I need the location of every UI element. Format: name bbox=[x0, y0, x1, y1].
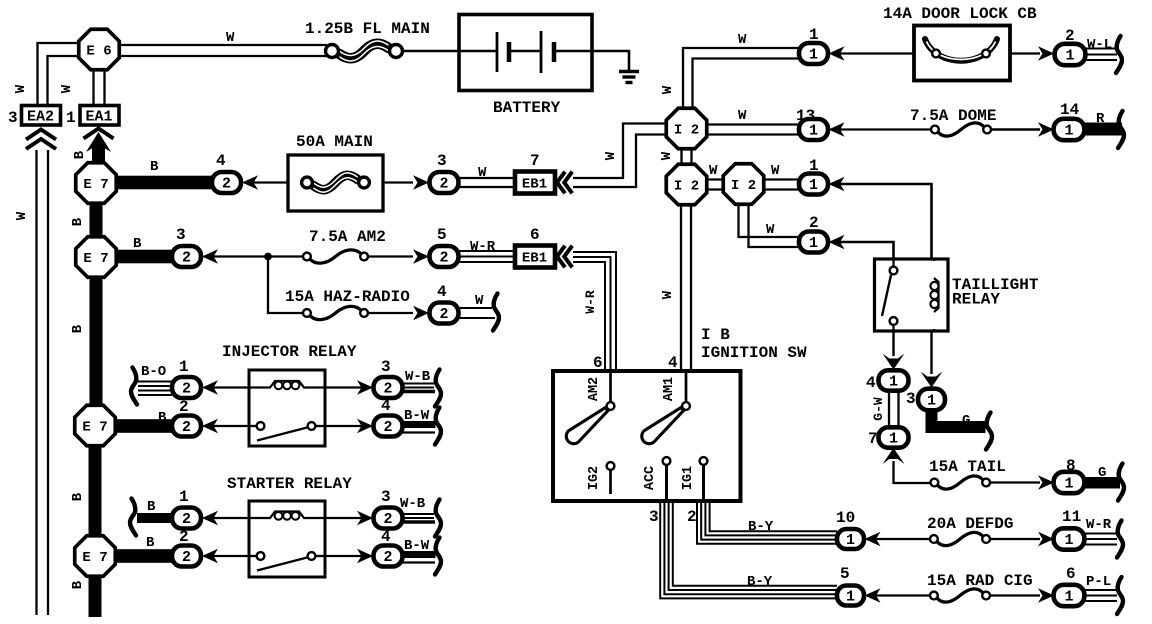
wire continuation curl bbox=[435, 538, 441, 575]
arrow into connector 2 bbox=[1038, 46, 1054, 60]
connector 1 (pin 2) taillight sw feed bbox=[799, 232, 828, 253]
fuse 15A TAIL bbox=[931, 476, 990, 489]
wire label W bbox=[771, 163, 780, 179]
svg-text:1: 1 bbox=[66, 109, 76, 127]
wire label B bbox=[147, 499, 156, 515]
connector pin 3 label bbox=[437, 152, 447, 170]
connector EA1 bbox=[80, 106, 119, 126]
connector pin 1 label bbox=[179, 488, 189, 506]
solid arrow down into connector 3 bbox=[921, 372, 943, 388]
wire continuation curl B bbox=[130, 499, 136, 536]
svg-text:7: 7 bbox=[530, 152, 540, 170]
wire label G-W rotated bbox=[871, 397, 886, 421]
svg-text:1: 1 bbox=[1064, 123, 1073, 140]
svg-text:P-L: P-L bbox=[1086, 574, 1111, 590]
connector 1 (pin 10) bbox=[837, 529, 864, 549]
wire label P-L bbox=[1086, 574, 1111, 590]
svg-text:IGNITION SW: IGNITION SW bbox=[701, 344, 807, 362]
wire W stub (double line) bbox=[459, 308, 496, 318]
wire W-B stub bbox=[403, 514, 436, 522]
svg-text:E 7: E 7 bbox=[82, 419, 107, 435]
svg-text:2: 2 bbox=[182, 419, 191, 436]
arrow into connector 2 bbox=[202, 549, 218, 563]
wire to taillight relay switch bbox=[837, 242, 894, 258]
svg-text:B-W: B-W bbox=[404, 538, 430, 554]
wire continuation curl bbox=[1118, 111, 1124, 148]
wire from 50A MAIN fuse bbox=[383, 181, 413, 183]
svg-text:3: 3 bbox=[176, 226, 186, 244]
connector 2 (pin 1) bbox=[172, 377, 201, 398]
connector EA2 pin 3 label bbox=[8, 109, 18, 127]
arrow into connector 4 bbox=[413, 306, 429, 320]
svg-text:3: 3 bbox=[437, 152, 447, 170]
wire label B-W bbox=[404, 538, 430, 554]
svg-text:ACC: ACC bbox=[643, 466, 658, 490]
wire B-W stub bbox=[403, 421, 436, 433]
svg-text:EA2: EA2 bbox=[27, 109, 54, 126]
svg-text:2: 2 bbox=[222, 176, 231, 193]
wire W junction I2 to connector 13 (double line) bbox=[706, 125, 799, 135]
solid arrow into EA1 bbox=[86, 132, 111, 163]
svg-text:BATTERY: BATTERY bbox=[493, 99, 561, 117]
wire W from E6 bottom to EA1 (double line) bbox=[94, 69, 105, 104]
connector EA1 pin 1 label bbox=[66, 109, 76, 127]
svg-text:1: 1 bbox=[179, 358, 189, 376]
svg-text:7: 7 bbox=[868, 430, 878, 448]
svg-text:B: B bbox=[72, 150, 88, 159]
connector pin 3 label bbox=[381, 488, 391, 506]
svg-text:B: B bbox=[146, 535, 155, 551]
wire G-W (double line) bbox=[889, 391, 899, 429]
wire from relay switch down bbox=[892, 331, 894, 356]
wire W from E6 left to EA2 (double line corner) bbox=[38, 43, 79, 104]
connector pin 5 label bbox=[437, 226, 447, 244]
svg-text:W: W bbox=[766, 222, 775, 238]
wire label W rotated bbox=[659, 151, 675, 160]
wire from TAIL fuse bbox=[990, 481, 1040, 483]
fuse 15A RAD CIG label bbox=[927, 572, 1033, 590]
svg-text:E 7: E 7 bbox=[83, 251, 108, 267]
arrow into connector 1 bbox=[202, 380, 218, 394]
wire B-Y from ACC to connector 5 (4-line bundle) bbox=[660, 503, 837, 598]
arrow into connector 5 bbox=[413, 249, 429, 263]
solid arrow up into connector 7 bbox=[883, 448, 905, 464]
connector pin 7 label bbox=[868, 430, 878, 448]
svg-text:IG2: IG2 bbox=[587, 466, 602, 490]
relay switch contacts bbox=[882, 259, 897, 331]
wire label B-W bbox=[404, 408, 430, 424]
wire P-L stub bbox=[1086, 590, 1118, 601]
wire W from E6 to fusible link FL MAIN (double line) bbox=[120, 45, 329, 56]
svg-text:W: W bbox=[13, 84, 29, 93]
wire from CB to connector 2 bbox=[1010, 52, 1040, 54]
svg-text:2: 2 bbox=[182, 549, 191, 566]
svg-text:3: 3 bbox=[649, 508, 659, 526]
svg-text:1: 1 bbox=[179, 488, 189, 506]
connector 2 (pin 4) bbox=[212, 172, 241, 193]
arrow into connector 4 bbox=[357, 419, 373, 433]
wire to relay switch bbox=[210, 425, 249, 427]
arrow into connector 3 bbox=[357, 380, 373, 394]
connector pin 4 label bbox=[866, 374, 876, 392]
svg-text:4: 4 bbox=[381, 397, 391, 415]
connector pin 5 label bbox=[840, 565, 850, 583]
arrow into connector 1 bbox=[202, 511, 218, 525]
arrow into connector 11 bbox=[1038, 532, 1054, 546]
wire label W-L bbox=[1087, 37, 1112, 53]
wire W below EA2 to bottom (double line) bbox=[37, 150, 49, 615]
svg-text:3: 3 bbox=[906, 390, 916, 408]
svg-text:E 7: E 7 bbox=[83, 177, 108, 193]
wire to AM2 fuse with junction bbox=[210, 255, 305, 257]
fuse 15A HAZ-RADIO label bbox=[285, 288, 410, 306]
wire continuation curl bbox=[986, 413, 992, 450]
svg-text:B-O: B-O bbox=[141, 364, 166, 380]
connector pin 10 label bbox=[836, 509, 855, 527]
svg-text:2: 2 bbox=[383, 549, 392, 566]
connector 2 (pin 2) bbox=[172, 546, 201, 567]
connector pin 4 label bbox=[216, 152, 226, 170]
wire from junction to HAZ fuse bbox=[268, 257, 305, 314]
wire label W rotated bbox=[13, 84, 29, 93]
wire from FL MAIN to battery bbox=[403, 50, 460, 53]
wire W-B stub bbox=[403, 384, 436, 392]
relay STARTER box bbox=[249, 501, 325, 577]
connector 1 (pin 6) bbox=[1054, 585, 1085, 606]
connector pin 13 label bbox=[796, 107, 815, 125]
circuit breaker box bbox=[914, 26, 1010, 81]
wire from relay switch bbox=[325, 555, 371, 557]
ignition switch pin 2 label bbox=[687, 508, 697, 526]
svg-text:W-B: W-B bbox=[400, 496, 426, 512]
connector 2 (pin 4) bbox=[430, 303, 459, 324]
svg-text:15A HAZ-RADIO: 15A HAZ-RADIO bbox=[285, 288, 410, 306]
wire battery to ground bbox=[592, 51, 629, 71]
arrow into connector 10 bbox=[865, 532, 881, 546]
relay STARTER RELAY label bbox=[227, 475, 352, 493]
svg-text:1: 1 bbox=[809, 235, 818, 252]
wire from AM2 fuse bbox=[368, 255, 413, 257]
svg-text:W: W bbox=[475, 293, 484, 309]
connector 2 (pin 3) bbox=[374, 508, 403, 529]
svg-text:1: 1 bbox=[889, 431, 898, 448]
wire label W bbox=[738, 32, 747, 48]
ignition switch pin 4 label bbox=[668, 354, 678, 372]
connector 2 (pin 3) bbox=[430, 172, 459, 193]
relay coil bbox=[248, 512, 326, 520]
svg-text:W-B: W-B bbox=[405, 369, 431, 385]
wire B from E7 to connector 3 (thick) bbox=[112, 250, 174, 264]
connector pin 14 label bbox=[1060, 101, 1080, 119]
wire W connector 1 to junction I2 (double line corner) bbox=[683, 48, 799, 109]
svg-text:1: 1 bbox=[889, 374, 898, 391]
wire continuation curl bbox=[435, 408, 441, 445]
fuse 7.5A AM2 bbox=[303, 250, 368, 263]
svg-text:6: 6 bbox=[1066, 565, 1076, 583]
connector 1 (pin 4) bbox=[879, 370, 909, 390]
battery cells bbox=[459, 31, 592, 73]
svg-text:E 6: E 6 bbox=[86, 43, 111, 59]
svg-text:W-R: W-R bbox=[583, 290, 598, 314]
wire label B bbox=[158, 410, 167, 426]
wire label W bbox=[709, 163, 718, 179]
wire label B-Y bbox=[748, 519, 774, 535]
relay coil bbox=[930, 259, 938, 331]
svg-text:W: W bbox=[709, 163, 718, 179]
svg-text:W: W bbox=[226, 30, 235, 46]
svg-text:1: 1 bbox=[809, 123, 818, 140]
wire label W rotated bbox=[603, 151, 619, 160]
wire W-L stub bbox=[1086, 49, 1118, 61]
connector 1 (pin 7) bbox=[879, 427, 909, 447]
svg-text:4: 4 bbox=[866, 374, 876, 392]
wire W from EB1 up to junction I2 (double line corner) bbox=[573, 124, 667, 188]
junction E6 bbox=[79, 29, 120, 70]
junction I2 #2 bbox=[666, 164, 707, 205]
arrow into connector 13 bbox=[829, 122, 845, 136]
arrow into connector 8 bbox=[1038, 475, 1054, 489]
svg-text:IG1: IG1 bbox=[681, 466, 696, 490]
svg-text:W-R: W-R bbox=[470, 239, 496, 255]
svg-text:B: B bbox=[133, 236, 142, 252]
svg-text:B-W: B-W bbox=[404, 408, 430, 424]
wire continuation curl bbox=[1117, 521, 1123, 558]
wire from relay coil bbox=[325, 386, 371, 388]
ground bbox=[619, 72, 639, 83]
connector 2 (pin 4) bbox=[374, 546, 403, 567]
svg-text:W: W bbox=[660, 290, 676, 299]
connector 1 (pin 3) bbox=[918, 389, 945, 411]
wire label B rotated bbox=[70, 217, 86, 226]
svg-text:RELAY: RELAY bbox=[952, 291, 1000, 309]
connector pin 6 label bbox=[1066, 565, 1076, 583]
relay TAILLIGHT RELAY box bbox=[875, 259, 949, 331]
wire to door lock CB bbox=[837, 52, 914, 54]
wire W I2 to connector 1 (double line) bbox=[763, 180, 799, 190]
fuse 50A MAIN box bbox=[288, 155, 383, 211]
connector 2 (pin 5) bbox=[430, 246, 459, 267]
arrow into connector 3 bbox=[413, 175, 429, 189]
connector 1 (pin 14) bbox=[1054, 119, 1085, 140]
svg-text:5: 5 bbox=[437, 226, 447, 244]
connector pin 4 label bbox=[437, 283, 447, 301]
fuse 7.5A DOME label bbox=[910, 107, 996, 125]
connector 2 (pin 4) bbox=[374, 416, 403, 437]
wire continuation curl bbox=[493, 294, 499, 331]
connector 1 (pin 1) taillight feed bbox=[799, 174, 828, 195]
connector 1 (pin 5) bbox=[837, 586, 864, 606]
svg-text:B-Y: B-Y bbox=[747, 574, 773, 590]
svg-text:2: 2 bbox=[182, 511, 191, 528]
junction I2 #3 bbox=[723, 164, 764, 205]
svg-text:B: B bbox=[70, 580, 86, 589]
wire continuation curl bbox=[1118, 464, 1124, 501]
connector pin 3 label bbox=[381, 358, 391, 376]
svg-text:2: 2 bbox=[439, 250, 448, 267]
wire continuation curl bbox=[1117, 577, 1123, 614]
ignition switch pin 3 label bbox=[649, 508, 659, 526]
relay switch contacts bbox=[249, 552, 325, 570]
connector 1 (pin 2) bbox=[1055, 44, 1086, 65]
circuit breaker element bbox=[925, 39, 997, 61]
key wedge AM2 bbox=[566, 408, 608, 444]
terminal IG1 bbox=[681, 457, 707, 501]
svg-text:R: R bbox=[1096, 111, 1105, 127]
svg-text:B: B bbox=[158, 410, 167, 426]
svg-text:6: 6 bbox=[530, 226, 540, 244]
svg-text:20A DEFDG: 20A DEFDG bbox=[927, 515, 1013, 533]
connector pin 11 label bbox=[1062, 508, 1081, 526]
connector pin 4 label bbox=[381, 397, 391, 415]
wire label B bbox=[150, 159, 159, 175]
arrow into connector 3 bbox=[202, 249, 218, 263]
wire to relay coil bbox=[210, 386, 249, 388]
svg-text:EB1: EB1 bbox=[522, 177, 547, 193]
wire label W-B bbox=[405, 369, 431, 385]
svg-text:1: 1 bbox=[846, 532, 855, 549]
wire label W rotated bbox=[14, 211, 30, 220]
terminal IG2 bbox=[587, 462, 614, 494]
svg-text:W-L: W-L bbox=[1087, 37, 1112, 53]
arrow into connector 1 bbox=[829, 46, 845, 60]
connector 1 (pin 1) bbox=[799, 43, 828, 64]
solid arrow down into connector 4 bbox=[883, 354, 905, 370]
wire label B rotated bbox=[70, 324, 86, 333]
svg-text:2: 2 bbox=[383, 381, 392, 398]
svg-text:2: 2 bbox=[182, 381, 191, 398]
wire B stub (thick) bbox=[137, 513, 172, 523]
wire label R bbox=[1096, 111, 1105, 127]
arrow into connector bbox=[829, 235, 845, 249]
fusible link 50A MAIN bbox=[302, 173, 370, 192]
connector 2 (pin 3) bbox=[172, 246, 201, 267]
arrow into connector 3 bbox=[357, 511, 373, 525]
svg-text:10: 10 bbox=[836, 509, 855, 527]
connector pin 3 label bbox=[906, 390, 916, 408]
wire label W rotated bbox=[660, 85, 676, 94]
chevron arrows below EA2 bbox=[26, 130, 56, 150]
svg-text:G: G bbox=[1098, 465, 1106, 481]
svg-text:7.5A DOME: 7.5A DOME bbox=[910, 107, 996, 125]
junction dot bbox=[264, 253, 272, 261]
svg-text:1: 1 bbox=[927, 393, 936, 410]
svg-text:B: B bbox=[70, 324, 86, 333]
chevron arrow below EA1 bbox=[84, 129, 114, 139]
arrow into connector 4 bbox=[242, 175, 258, 189]
svg-text:W: W bbox=[478, 165, 487, 181]
svg-text:3: 3 bbox=[381, 358, 391, 376]
key wedge AM1 bbox=[642, 408, 684, 444]
svg-text:G: G bbox=[962, 413, 970, 429]
svg-text:AM1: AM1 bbox=[662, 377, 677, 401]
wire label W bbox=[766, 222, 775, 238]
ignition switch pin 6 label bbox=[593, 354, 603, 372]
wire W-R from EB1 down to ignition AM2 (triple line corner) bbox=[573, 252, 616, 370]
fuse 7.5A DOME bbox=[931, 123, 991, 136]
wire label W-R bbox=[1086, 517, 1112, 533]
svg-text:E 7: E 7 bbox=[82, 550, 107, 566]
svg-text:4: 4 bbox=[216, 152, 226, 170]
wire to taillight relay coil bbox=[837, 184, 932, 258]
arrow into connector 2 bbox=[202, 419, 218, 433]
wire continuation curl bbox=[1116, 36, 1122, 73]
wire continuation curl bbox=[435, 500, 441, 537]
svg-text:15A TAIL: 15A TAIL bbox=[929, 458, 1006, 476]
wire label W bbox=[738, 108, 747, 124]
arrow into connector 14 bbox=[1038, 122, 1054, 136]
svg-text:4: 4 bbox=[437, 283, 447, 301]
wire B-W stub bbox=[403, 551, 436, 563]
wire from relay coil bbox=[325, 517, 371, 519]
wire continuation curl B-O bbox=[131, 368, 137, 405]
svg-text:I B: I B bbox=[701, 326, 730, 344]
wire to relay coil bbox=[210, 517, 249, 519]
wire label G bbox=[962, 413, 970, 429]
connector pin 3 label bbox=[176, 226, 186, 244]
ground junction E7 #1 bbox=[76, 163, 117, 204]
wire W I2-I2 (double line) bbox=[705, 180, 725, 190]
connector 1 (pin 8) bbox=[1054, 472, 1085, 493]
connector 1 (pin 13) bbox=[799, 119, 828, 140]
svg-text:I 2: I 2 bbox=[674, 122, 699, 138]
svg-text:B-Y: B-Y bbox=[748, 519, 774, 535]
connector EB1 #7 bbox=[515, 172, 555, 194]
svg-text:1: 1 bbox=[809, 47, 818, 64]
wire from DOME fuse bbox=[991, 128, 1040, 130]
svg-text:I 2: I 2 bbox=[674, 178, 699, 194]
svg-text:B: B bbox=[70, 492, 86, 501]
svg-text:1: 1 bbox=[846, 589, 855, 606]
connector 2 (pin 1) bbox=[172, 508, 201, 529]
svg-text:B: B bbox=[70, 217, 86, 226]
ground junction E7 #3 bbox=[75, 405, 116, 446]
relay label TAILLIGHT RELAY bbox=[952, 276, 1039, 309]
svg-text:2: 2 bbox=[687, 508, 697, 526]
chevrons at EB1 #7 bbox=[557, 172, 572, 194]
fuse 50A MAIN label bbox=[296, 133, 373, 151]
wire label W bbox=[475, 293, 484, 309]
chevrons at EB1 #6 bbox=[557, 246, 572, 268]
relay coil bbox=[248, 381, 326, 389]
arrow into connector 4 bbox=[357, 549, 373, 563]
wire label W rotated bbox=[660, 290, 676, 299]
wire W-R stub bbox=[1086, 534, 1118, 545]
fusible link 1.25B FL MAIN label bbox=[305, 20, 430, 38]
svg-text:15A RAD CIG: 15A RAD CIG bbox=[927, 572, 1033, 590]
connector EB1 #6 bbox=[515, 246, 555, 268]
connector pin 1 label bbox=[809, 26, 819, 44]
wire W-R to EB1 (triple line) bbox=[459, 251, 516, 262]
svg-text:W: W bbox=[738, 32, 747, 48]
wire label B rotated bbox=[72, 150, 88, 159]
wire to 50A MAIN fuse bbox=[250, 181, 288, 183]
fuse 15A HAZ-RADIO bbox=[303, 306, 368, 319]
wire label B rotated bbox=[70, 580, 86, 589]
svg-text:14: 14 bbox=[1060, 101, 1080, 119]
connector 2 (pin 3) bbox=[374, 377, 403, 398]
svg-text:2: 2 bbox=[383, 511, 392, 528]
svg-text:W: W bbox=[738, 108, 747, 124]
svg-text:2: 2 bbox=[383, 419, 392, 436]
arrow into connector 5 bbox=[865, 588, 881, 602]
svg-text:W: W bbox=[603, 151, 619, 160]
circuit breaker 14A DOOR LOCK CB label bbox=[883, 5, 1037, 23]
wire continuation curl bbox=[435, 370, 441, 407]
connector pin 4 label bbox=[381, 528, 391, 546]
wire from relay coil down bbox=[930, 331, 932, 374]
connector pin 1 label bbox=[809, 157, 819, 175]
svg-text:2: 2 bbox=[182, 250, 191, 267]
